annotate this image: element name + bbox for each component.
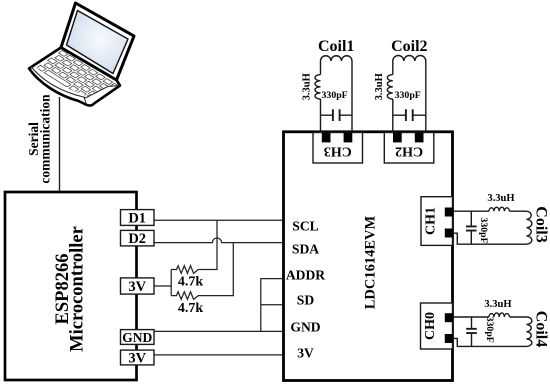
svg-text:330pF: 330pF [478,217,489,243]
wire: Coil3 bottom return lead [453,233,527,244]
LDC1614EVM block [284,132,453,381]
svg-text:SDA: SDA [292,242,319,257]
wire: 3V to LDC 3V [154,354,283,356]
svg-text:3V: 3V [128,350,146,366]
connector pad [344,133,353,143]
svg-text:CH0: CH0 [423,312,438,340]
wire: Coil4 bottom return lead [453,338,527,346]
svg-text:330pF: 330pF [322,90,348,101]
ESP pin box D2 [121,230,155,246]
wire: R1 to SCL line [204,220,217,269]
inductor L4 3.3uH (Coil4) [489,313,510,317]
capacitor C3 330pF [470,211,472,244]
wire: R2 to SDA line [204,243,234,296]
wire: GND to LDC GND [154,330,283,332]
connector pad [322,133,331,143]
resistor R1 4.7k [171,266,203,274]
connector CH1 [421,197,453,246]
svg-text:4.7k: 4.7k [178,301,204,316]
ESP pin box GND [121,330,155,345]
connector CH0 [421,303,453,349]
ESP pin box D1 [121,210,155,226]
capacitor C1 330pF [321,114,353,116]
Coil1 LC tank [315,56,352,133]
resistor R2 4.7k [171,292,203,300]
svg-text:LDC1614EVM: LDC1614EVM [363,215,379,309]
svg-text:ADDR: ADDR [286,268,325,283]
svg-text:CH1: CH1 [424,207,439,235]
connector pad [445,313,454,322]
svg-text:3.3uH: 3.3uH [487,193,514,204]
capacitor C2 330pF [393,114,426,116]
svg-text:CH2: CH2 [395,144,423,159]
wire: Coil2 loop left side [392,61,394,133]
svg-text:4.7k: 4.7k [178,275,204,290]
connector pad [445,229,454,238]
wire: serial link laptop to ESP8266 [59,97,61,192]
ESP8266 microcontroller block [5,192,137,380]
wire: Coil3 loop top right [510,210,527,212]
svg-text:D1: D1 [128,210,146,226]
wire: Coil4 top lead [453,316,489,318]
svg-text:D2: D2 [128,231,146,247]
inductor L2 3.3uH (Coil2) [393,56,426,62]
svg-text:CH3: CH3 [324,144,352,159]
wire: 3V to pullup resistors [154,285,171,287]
svg-text:GND: GND [122,330,152,345]
ESP pin box 3V [121,350,155,365]
wire: Coil3 top lead [453,210,489,212]
svg-text:3.3uH: 3.3uH [302,73,313,100]
svg-text:Coil4: Coil4 [532,311,549,347]
wire: D1 to SCL [154,219,283,221]
connector pad [393,133,402,143]
svg-text:330pF: 330pF [484,317,495,343]
wire: D2 to SDA (with hop) [154,238,283,243]
svg-text:Coil2: Coil2 [391,38,427,55]
svg-text:3.3uH: 3.3uH [484,299,511,310]
wire: Coil4 loop top right [510,316,527,318]
inductor L3 3.3uH (Coil3) [489,207,510,211]
connector pad [445,208,454,217]
connector CH2 [384,133,434,164]
svg-text:3.3uH: 3.3uH [374,73,385,100]
connector pad [415,133,424,143]
wire: Coil2 loop right side [425,61,427,133]
inductor L1 3.3uH (Coil1) [321,56,353,61]
svg-text:3V: 3V [297,346,314,361]
connector CH3 [313,133,363,164]
svg-text:330pF: 330pF [395,90,421,101]
ESP pin box 3V [121,278,155,294]
coil body Coil3 [527,211,532,244]
wire: ADDR + SD tie to GND [261,279,283,332]
Coil3 LC tank [453,207,532,244]
Coil2 LC tank [387,56,426,133]
connector pad [445,334,454,343]
svg-text:Coil3: Coil3 [532,206,549,242]
coil body Coil4 [527,317,532,346]
capacitor C4 330pF [471,317,473,346]
svg-text:3V: 3V [128,279,146,295]
Coil4 LC tank [453,313,532,346]
svg-text:SCL: SCL [292,219,318,234]
svg-text:SD: SD [297,293,315,308]
wire: Coil1 loop left side [320,61,322,133]
svg-text:GND: GND [290,319,320,334]
wire: Coil1 loop right side [351,61,353,133]
svg-text:Coil1: Coil1 [318,38,354,55]
